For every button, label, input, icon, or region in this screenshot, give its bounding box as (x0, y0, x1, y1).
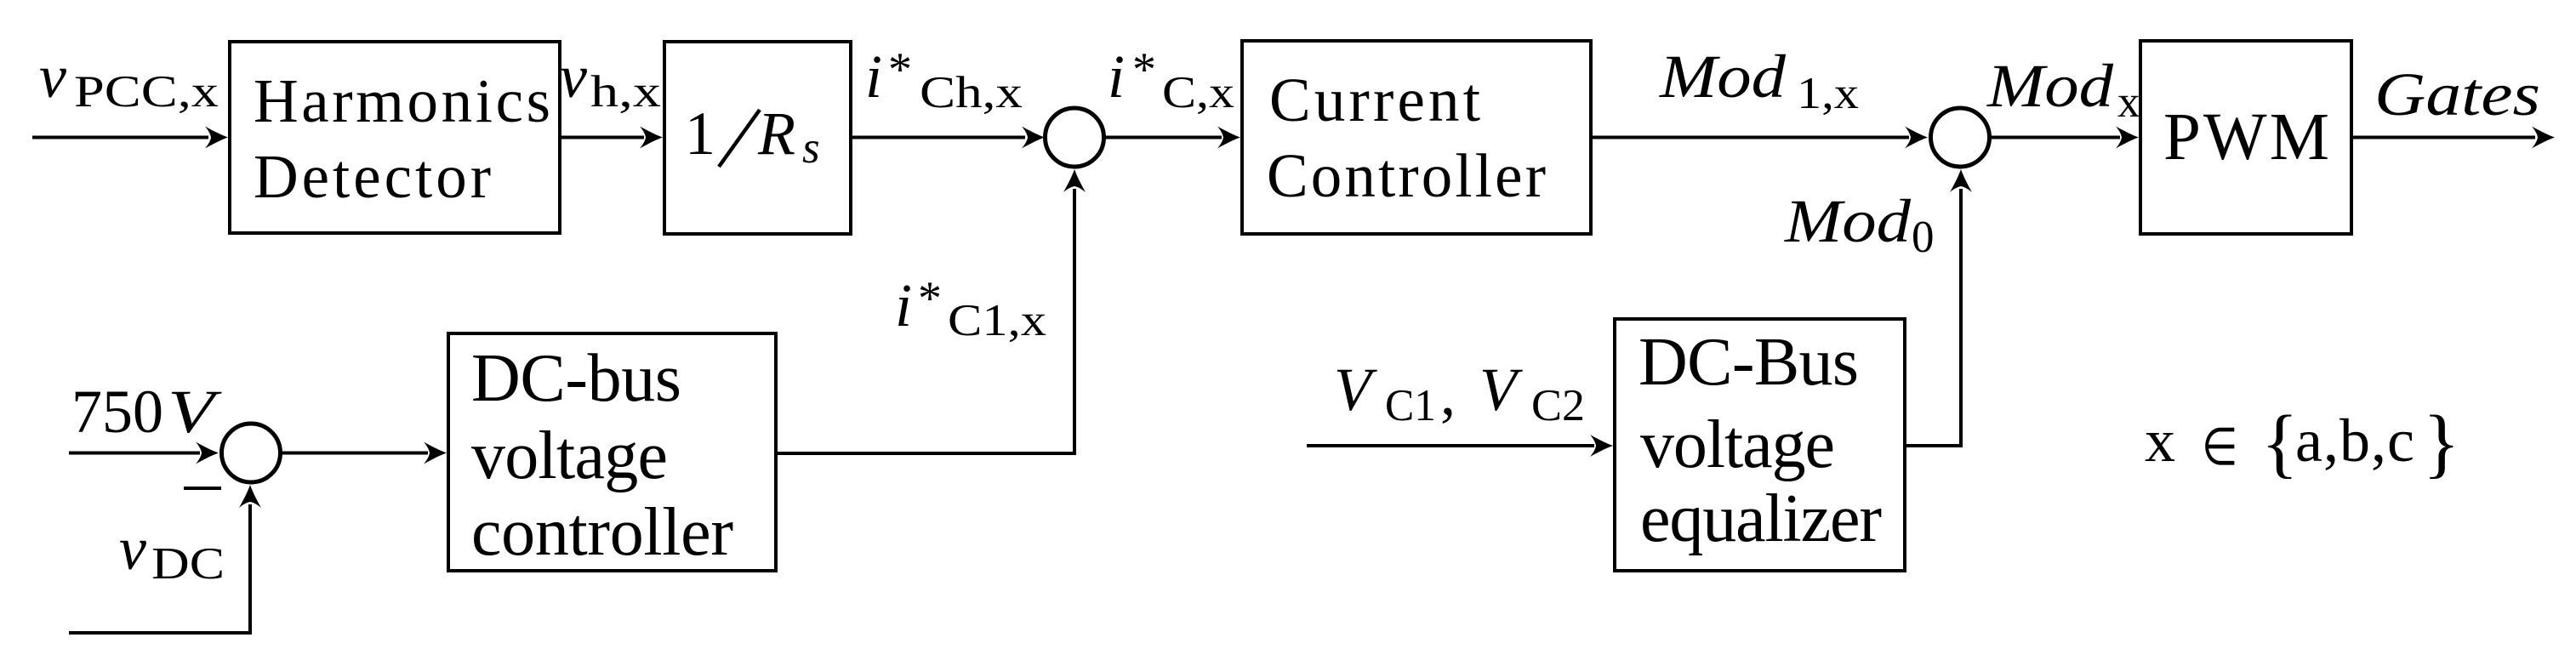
svg-text:v: v (39, 43, 66, 111)
svg-text:1,x: 1,x (1797, 69, 1859, 118)
wire: Mod1,x from Current Controller to summing junction S2 (1591, 136, 1909, 139)
wire: vDC feedback bottom horizontal (69, 631, 250, 635)
summing junction S2 (1931, 108, 1990, 167)
arrowhead into Current Controller (1217, 127, 1240, 149)
svg-text:Mod: Mod (1659, 43, 1787, 111)
svg-text:Mod: Mod (1986, 52, 2114, 120)
wire: Modx from S2 to PWM (1991, 136, 2120, 139)
arrowhead into summing junction S2 (1905, 127, 1928, 149)
label i*Ch,x (865, 43, 1023, 117)
wire: vh,x from Harmonics Detector to 1/Rs (560, 136, 644, 139)
svg-text:voltage: voltage (1640, 407, 1835, 482)
svg-text:i: i (895, 271, 912, 339)
svg-text:C1,x: C1,x (948, 296, 1046, 345)
svg-text:PCC,x: PCC,x (74, 67, 219, 117)
svg-text:∈: ∈ (2202, 418, 2238, 475)
block: 1/Rs (664, 42, 851, 234)
arrowhead into DC-bus voltage controller (424, 442, 447, 464)
wire: controller output horizontal (776, 452, 1074, 455)
svg-text:DC-bus: DC-bus (471, 341, 681, 416)
svg-text:,: , (1440, 360, 1456, 428)
svg-text:*: * (918, 272, 942, 325)
label Modx (1986, 52, 2140, 127)
svg-text:{: { (2261, 400, 2299, 486)
svg-text:x: x (2145, 407, 2175, 475)
svg-text:equalizer: equalizer (1640, 481, 1882, 556)
label vDC (119, 515, 225, 589)
wire: 750V into summing junction S3 (69, 452, 200, 455)
svg-text:1: 1 (685, 100, 715, 168)
label vh,x (560, 43, 661, 117)
minus sign at S3 (184, 487, 221, 490)
svg-text:V: V (1334, 356, 1377, 424)
wire: equalizer output vertical up to S2 (Mod0) (1959, 189, 1963, 447)
svg-text:PWM: PWM (2163, 100, 2329, 174)
svg-text:*: * (888, 43, 912, 96)
wire: equalizer output horizontal (1905, 444, 1961, 447)
svg-text:v: v (119, 515, 146, 583)
svg-text:750: 750 (71, 378, 163, 446)
svg-text:V: V (1479, 356, 1523, 424)
arrowhead into 1/Rs (640, 127, 663, 149)
svg-text:C,x: C,x (1162, 68, 1234, 117)
summing junction S3 (222, 424, 281, 482)
svg-text:Gates: Gates (2374, 60, 2540, 128)
arrowhead into S3 (196, 442, 219, 464)
svg-text:h,x: h,x (590, 67, 661, 117)
svg-text:}: } (2423, 400, 2460, 486)
wire: i*Ch,x from 1/Rs to summing junction S1 (851, 136, 1025, 139)
svg-text:R: R (757, 100, 795, 168)
block: PWM (2140, 41, 2351, 234)
wire: VC1,VC2 into DC-Bus voltage equalizer (1307, 444, 1594, 447)
svg-text:voltage: voltage (471, 418, 668, 493)
svg-text:controller: controller (471, 495, 733, 570)
label Mod0 (1784, 187, 1935, 262)
svg-text:Ch,x: Ch,x (920, 68, 1023, 117)
label VC1, VC2 (1334, 356, 1585, 430)
svg-text:a,b,c: a,b,c (2295, 407, 2414, 475)
summing junction S1 (1046, 108, 1104, 167)
svg-text:i: i (865, 43, 882, 111)
block: Current Controller (1242, 41, 1591, 234)
label vPCC,x (39, 43, 219, 117)
label i*C,x (1108, 43, 1234, 117)
svg-text:Harmonics: Harmonics (254, 66, 550, 135)
svg-text:C2: C2 (1531, 381, 1585, 430)
label x in {a,b,c} (2145, 400, 2460, 486)
arrowhead into PWM (2116, 127, 2139, 149)
svg-text:V: V (168, 378, 222, 446)
arrowhead up into S3 (239, 485, 261, 508)
svg-text:DC-Bus: DC-Bus (1638, 325, 1859, 400)
wire: vDC feedback vertical into S3 (248, 504, 252, 635)
wire: input vPCC,x to Harmonics Detector (32, 136, 208, 139)
svg-text:*: * (1132, 43, 1156, 96)
arrowhead into summing junction S1 (1022, 127, 1045, 149)
label Mod1,x (1659, 43, 1859, 118)
svg-text:0: 0 (1912, 213, 1935, 262)
svg-text:DC: DC (151, 539, 225, 589)
arrowhead into equalizer (1590, 435, 1613, 457)
wire: Gates output (2351, 136, 2535, 139)
svg-text:v: v (560, 43, 587, 111)
svg-text:s: s (802, 123, 820, 173)
svg-text:Detector: Detector (254, 142, 491, 211)
block: DC-Bus voltage equalizer (1615, 319, 1905, 571)
block: Harmonics Detector (230, 42, 560, 233)
arrowhead Gates output (2532, 127, 2555, 149)
svg-text:i: i (1108, 43, 1125, 111)
wire: i*C,x from S1 to Current Controller (1105, 136, 1222, 139)
wire: controller output vertical up to S1 (1073, 189, 1076, 455)
label i*C1,x (895, 271, 1046, 345)
arrowhead up into S2 (1950, 169, 1972, 192)
block: DC-bus voltage controller (448, 333, 776, 571)
wire: S3 to DC-bus voltage controller (282, 452, 428, 455)
svg-text:Current: Current (1269, 65, 1480, 134)
svg-text:Mod: Mod (1784, 187, 1912, 255)
svg-text:C1: C1 (1385, 381, 1436, 430)
svg-text:x: x (2117, 77, 2140, 127)
arrowhead up into S1 (1063, 169, 1086, 192)
arrowhead into Harmonics Detector (205, 127, 228, 149)
